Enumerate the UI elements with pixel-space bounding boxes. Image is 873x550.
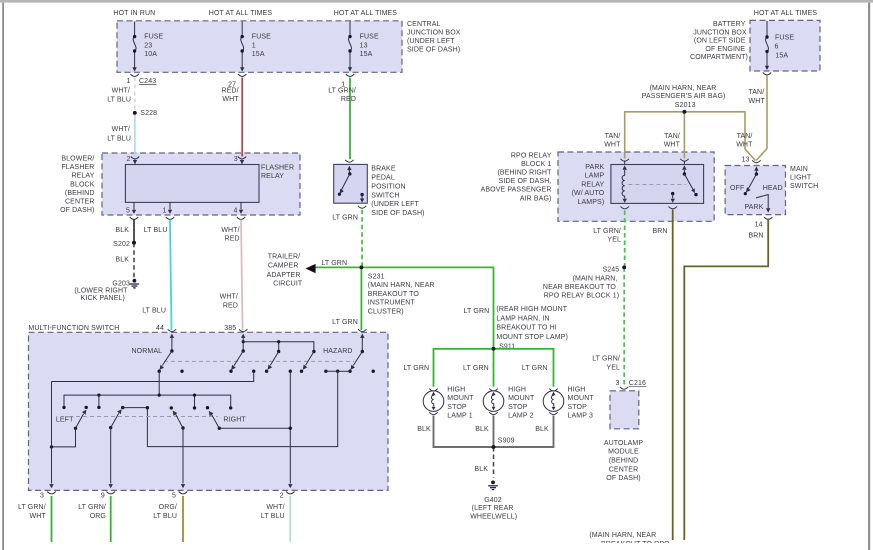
svg-text:3: 3 xyxy=(40,492,44,499)
node LEFT label xyxy=(56,416,74,423)
svg-text:13: 13 xyxy=(360,43,368,50)
svg-text:SIDE OF DASH,: SIDE OF DASH, xyxy=(499,178,552,185)
main light switch xyxy=(725,156,818,228)
svg-text:STOP: STOP xyxy=(447,404,467,411)
svg-text:BLK: BLK xyxy=(115,256,129,263)
svg-text:4: 4 xyxy=(233,208,237,215)
svg-text:(MAIN HARN, NEAR: (MAIN HARN, NEAR xyxy=(589,532,656,539)
svg-text:(W/ AUTO: (W/ AUTO xyxy=(572,190,605,197)
svg-text:MOUNT: MOUNT xyxy=(508,395,535,402)
svg-text:LAMP 1: LAMP 1 xyxy=(447,413,473,420)
svg-text:CENTER: CENTER xyxy=(65,199,95,206)
switch arm 3 xyxy=(265,350,281,373)
svg-text:(UNDER LEFT: (UNDER LEFT xyxy=(371,201,419,208)
brake pedal position switch xyxy=(332,160,424,222)
svg-text:LT GRN/: LT GRN/ xyxy=(328,87,356,94)
svg-text:CENTRAL: CENTRAL xyxy=(407,21,441,28)
svg-text:(LEFT REAR: (LEFT REAR xyxy=(472,505,514,512)
svg-text:FUSE: FUSE xyxy=(144,34,163,41)
svg-text:S2013: S2013 xyxy=(675,102,696,109)
svg-text:FLASHER: FLASHER xyxy=(61,164,94,171)
svg-text:LT GRN/: LT GRN/ xyxy=(592,356,620,363)
svg-text:LAMP 3: LAMP 3 xyxy=(568,413,594,420)
svg-text:G402: G402 xyxy=(484,497,502,504)
svg-text:HIGH: HIGH xyxy=(447,387,465,394)
svg-text:TAN/: TAN/ xyxy=(605,133,621,140)
svg-text:LT BLU: LT BLU xyxy=(153,513,177,520)
splice S231 xyxy=(360,266,435,316)
svg-text:LT GRN/: LT GRN/ xyxy=(18,504,46,511)
wire WHT/LT BLU fuse23 to S228 xyxy=(107,78,135,113)
park lamp relay (w/ auto lamps) xyxy=(572,159,704,209)
svg-text:FUSE: FUSE xyxy=(252,34,271,41)
svg-text:WHT: WHT xyxy=(29,513,46,520)
svg-text:FUSE: FUSE xyxy=(775,35,794,42)
svg-text:BLK: BLK xyxy=(475,426,489,433)
svg-text:OF ENGINE: OF ENGINE xyxy=(705,46,745,53)
svg-text:BLK: BLK xyxy=(474,466,488,473)
svg-text:BLOWER/: BLOWER/ xyxy=(61,156,94,163)
svg-text:BATTERY: BATTERY xyxy=(713,21,746,28)
wire BLK lamp grounds to S909 xyxy=(434,416,554,448)
wire LT GRN/ORG pin9 xyxy=(78,496,111,542)
svg-text:ADAPTER: ADAPTER xyxy=(267,272,301,279)
switch arm left xyxy=(52,410,87,447)
node RIGHT label xyxy=(223,416,246,423)
svg-text:PARK: PARK xyxy=(585,164,604,171)
svg-text:(UNDER LEFT: (UNDER LEFT xyxy=(407,38,455,45)
svg-text:MOUNT: MOUNT xyxy=(568,395,595,402)
svg-text:9: 9 xyxy=(101,492,105,499)
svg-text:COMPARTMENT): COMPARTMENT) xyxy=(690,54,748,61)
wire LT GRN S231 to MFS hazard pin xyxy=(332,267,361,330)
svg-text:WHT/: WHT/ xyxy=(220,294,238,301)
svg-text:LT GRN: LT GRN xyxy=(332,319,358,326)
svg-text:JUNCTION BOX: JUNCTION BOX xyxy=(407,30,461,37)
svg-text:G203: G203 xyxy=(112,280,130,287)
switch linkage dashed (normal/hazard row) xyxy=(164,360,354,362)
svg-text:SIDE OF DASH): SIDE OF DASH) xyxy=(371,210,424,217)
svg-text:1: 1 xyxy=(162,208,166,215)
splice S228 xyxy=(133,110,157,117)
svg-text:1: 1 xyxy=(126,78,130,85)
window left border xyxy=(2,3,4,550)
svg-text:AIR BAG): AIR BAG) xyxy=(520,195,552,202)
splice S2013 and TAN/WHT harness xyxy=(604,85,755,160)
svg-text:15A: 15A xyxy=(775,53,788,60)
svg-text:RED/: RED/ xyxy=(221,87,238,94)
svg-text:FLASHER: FLASHER xyxy=(261,164,294,171)
svg-text:OF DASH): OF DASH) xyxy=(60,207,94,214)
wire BLK flasher pin5 to S202 xyxy=(115,220,134,243)
svg-text:(BEHIND: (BEHIND xyxy=(609,458,639,465)
svg-text:2: 2 xyxy=(280,492,284,499)
svg-text:NEAR BREAKOUT TO: NEAR BREAKOUT TO xyxy=(543,284,617,291)
svg-text:HIGH: HIGH xyxy=(568,387,586,394)
svg-text:2: 2 xyxy=(126,156,130,163)
svg-text:FUSE: FUSE xyxy=(360,34,379,41)
svg-text:CLUSTER): CLUSTER) xyxy=(368,309,404,316)
svg-text:AUTOLAMP: AUTOLAMP xyxy=(604,440,644,447)
svg-text:(MAIN HARN, NEAR: (MAIN HARN, NEAR xyxy=(650,85,717,92)
viewport clip band xyxy=(4,543,868,550)
wire LT GRN S911 bus to lamps xyxy=(403,349,553,387)
svg-text:LAMPS): LAMPS) xyxy=(578,199,605,206)
wire ORG/LT BLU pin5 xyxy=(153,496,183,542)
svg-text:TAN/: TAN/ xyxy=(664,133,680,140)
svg-text:BLK: BLK xyxy=(535,426,549,433)
svg-text:385: 385 xyxy=(224,325,236,332)
svg-text:ORG: ORG xyxy=(90,513,106,520)
wire LT GRN to trailer/camper adapter circuit xyxy=(267,253,362,287)
svg-text:CIRCUIT: CIRCUIT xyxy=(273,281,303,288)
fuse 1 15A xyxy=(228,22,271,89)
svg-text:WHT/: WHT/ xyxy=(266,504,284,511)
svg-text:1: 1 xyxy=(252,43,256,50)
svg-text:S909: S909 xyxy=(498,437,515,444)
svg-text:S202: S202 xyxy=(113,241,130,248)
node HOT AT ALL TIMES (fuse 6) xyxy=(754,10,818,17)
window right border xyxy=(868,3,870,550)
svg-text:(BEHIND: (BEHIND xyxy=(65,190,95,197)
fuse 6 15A xyxy=(763,21,795,75)
high mount stop lamp 3 xyxy=(535,387,594,433)
connector C243 pin 1 xyxy=(126,74,156,85)
svg-text:MOUNT STOP LAMP): MOUNT STOP LAMP) xyxy=(496,334,568,341)
svg-text:BLK: BLK xyxy=(115,227,129,234)
fuse 13 15A xyxy=(341,22,379,89)
wire LT GRN/YEL S245 to C216 autolamp xyxy=(592,267,624,386)
svg-text:LT GRN: LT GRN xyxy=(522,365,548,372)
svg-text:13: 13 xyxy=(741,156,749,163)
svg-text:WHT/: WHT/ xyxy=(221,227,239,234)
ground G203 xyxy=(74,279,139,302)
wire LT GRN S231 to S911 (rear high mount harn) xyxy=(361,267,568,348)
svg-text:(MAIN HARN, NEAR: (MAIN HARN, NEAR xyxy=(368,282,435,289)
svg-text:LT BLU: LT BLU xyxy=(144,227,168,234)
svg-text:HOT AT ALL TIMES: HOT AT ALL TIMES xyxy=(334,10,398,17)
svg-text:LT BLU: LT BLU xyxy=(107,135,131,142)
switch arm right xyxy=(208,410,292,430)
row2 lone contacts xyxy=(85,406,210,410)
contact dots row1 left xyxy=(158,370,184,373)
contact to bus3 riser xyxy=(121,406,149,410)
wire BLK S909 to G402 xyxy=(474,447,493,478)
switch arm 2 (385) xyxy=(229,349,245,373)
svg-text:BRAKE: BRAKE xyxy=(371,166,396,173)
svg-text:BREAKOUT TO: BREAKOUT TO xyxy=(368,291,420,298)
svg-text:44: 44 xyxy=(156,325,164,332)
battery junction box xyxy=(690,20,820,71)
wire WHT/LT BLU S228 to flasher pin 2 xyxy=(107,113,135,157)
wire LT GRN/RED fuse13 to brake switch xyxy=(328,78,356,160)
svg-text:ABOVE PASSENGER: ABOVE PASSENGER xyxy=(481,187,552,194)
MFS pin 9 xyxy=(101,492,115,500)
svg-text:LT BLU: LT BLU xyxy=(142,308,166,315)
wire BRN main light switch pin 14 xyxy=(684,219,768,541)
svg-text:STOP: STOP xyxy=(508,404,528,411)
svg-text:(LOWER RIGHT: (LOWER RIGHT xyxy=(74,287,128,294)
svg-text:10A: 10A xyxy=(144,51,157,58)
svg-text:RPO RELAY: RPO RELAY xyxy=(511,152,552,159)
svg-text:LT GRN: LT GRN xyxy=(332,214,358,221)
MFS pin 3 xyxy=(40,492,56,500)
svg-text:RELAY: RELAY xyxy=(581,181,604,188)
svg-text:3: 3 xyxy=(234,156,238,163)
wire LT BLU flasher pin1 to MFS pin 44 xyxy=(142,220,171,332)
svg-text:RIGHT: RIGHT xyxy=(223,416,246,423)
svg-text:BRN: BRN xyxy=(748,232,763,239)
svg-text:TRAILER/: TRAILER/ xyxy=(268,253,300,260)
svg-text:HOT AT ALL TIMES: HOT AT ALL TIMES xyxy=(754,10,818,17)
svg-text:SWITCH: SWITCH xyxy=(790,183,818,190)
svg-text:WHT/: WHT/ xyxy=(112,87,130,94)
wire RED/WHT fuse1 to flasher pin 3 xyxy=(221,78,242,157)
svg-text:(BEHIND RIGHT: (BEHIND RIGHT xyxy=(497,170,552,177)
splice dots overlay xyxy=(132,110,686,449)
svg-text:MULTI-FUNCTION SWITCH: MULTI-FUNCTION SWITCH xyxy=(28,325,119,332)
svg-text:HOT AT ALL TIMES: HOT AT ALL TIMES xyxy=(209,10,273,17)
MFS pin 44 entry xyxy=(168,329,176,351)
wire WHT/RED flasher pin4 to MFS pin 385 xyxy=(220,220,243,332)
junction dot pin3 riser xyxy=(49,382,53,489)
svg-text:14: 14 xyxy=(755,221,763,228)
high mount stop lamp 1 xyxy=(417,387,474,433)
svg-text:LT GRN/: LT GRN/ xyxy=(593,228,621,235)
wire BLK S202 to G203 xyxy=(115,243,134,278)
svg-text:RELAY: RELAY xyxy=(261,173,284,180)
svg-text:LT BLU: LT BLU xyxy=(107,97,131,104)
svg-text:POSITION: POSITION xyxy=(371,184,405,191)
node HOT IN RUN xyxy=(113,10,155,17)
svg-text:YEL: YEL xyxy=(606,364,620,371)
svg-text:TAN/: TAN/ xyxy=(737,133,753,140)
svg-text:LT GRN: LT GRN xyxy=(403,365,429,372)
svg-text:JUNCTION BOX: JUNCTION BOX xyxy=(693,29,747,36)
svg-text:WHT: WHT xyxy=(222,96,239,103)
svg-text:RELAY: RELAY xyxy=(71,173,94,180)
svg-text:15A: 15A xyxy=(360,51,373,58)
svg-text:MODULE: MODULE xyxy=(608,449,639,456)
node HAZARD label xyxy=(323,348,353,355)
svg-text:HEAD: HEAD xyxy=(763,185,783,192)
switch arm 4 xyxy=(300,350,316,373)
svg-text:CAMPER: CAMPER xyxy=(268,263,299,270)
svg-text:5: 5 xyxy=(126,208,130,215)
switch arm hazard xyxy=(351,350,364,370)
wire contact to bus2 xyxy=(158,371,160,395)
svg-text:INSTRUMENT: INSTRUMENT xyxy=(368,300,416,307)
svg-text:WHT: WHT xyxy=(748,98,765,105)
flasher relay xyxy=(125,156,294,219)
svg-text:WHT: WHT xyxy=(664,142,681,149)
svg-text:LAMP: LAMP xyxy=(585,173,605,180)
svg-text:BRN: BRN xyxy=(652,228,667,235)
wire TAN/WHT fuse6 to main light switch pin 13 xyxy=(748,76,767,161)
svg-text:KICK PANEL): KICK PANEL) xyxy=(81,295,125,302)
switch linkage dashed (left/right row) xyxy=(76,416,218,418)
svg-text:HIGH: HIGH xyxy=(508,387,526,394)
svg-text:LEFT: LEFT xyxy=(56,416,74,423)
contact dot to bus1 elbow xyxy=(52,370,256,382)
svg-text:LT GRN: LT GRN xyxy=(463,365,489,372)
svg-text:(ON LEFT SIDE: (ON LEFT SIDE xyxy=(694,38,746,45)
svg-text:YEL: YEL xyxy=(607,236,621,243)
hazard contacts xyxy=(324,370,375,373)
rpo relay block 1 xyxy=(481,152,715,221)
svg-text:C216: C216 xyxy=(629,380,646,387)
branch 385 to switches 3,4 xyxy=(242,340,314,351)
MFS pin 5 xyxy=(172,492,187,500)
svg-text:BLOCK: BLOCK xyxy=(70,181,95,188)
multi-function switch box xyxy=(28,325,388,491)
wire BRN rpo relay output xyxy=(652,210,672,541)
svg-text:TAN/: TAN/ xyxy=(748,89,764,96)
svg-text:RED: RED xyxy=(341,96,356,103)
splice S911 xyxy=(492,343,516,350)
svg-text:S245: S245 xyxy=(602,266,619,273)
svg-text:ORG/: ORG/ xyxy=(159,504,177,511)
svg-text:OFF: OFF xyxy=(730,185,744,192)
wire WHT/LT BLU pin2 xyxy=(261,496,290,542)
MFS hazard pin entry xyxy=(358,329,366,351)
node HOT AT ALL TIMES (fuse 13) xyxy=(334,10,398,17)
node NORMAL label xyxy=(132,348,163,355)
svg-text:BREAKOUT TO HI: BREAKOUT TO HI xyxy=(496,325,556,332)
note main harn near breakout (bottom) xyxy=(589,532,670,548)
MFS pin 385 entry xyxy=(239,329,247,351)
svg-text:MOUNT: MOUNT xyxy=(447,395,474,402)
svg-text:BLK: BLK xyxy=(417,426,431,433)
fuse 23 10A xyxy=(132,22,163,72)
svg-text:PASSENGER'S AIR BAG): PASSENGER'S AIR BAG) xyxy=(642,93,726,100)
svg-text:SIDE OF DASH): SIDE OF DASH) xyxy=(407,47,460,54)
svg-text:RED: RED xyxy=(225,236,240,243)
blower/flasher relay block xyxy=(60,153,300,215)
svg-text:5: 5 xyxy=(172,492,176,499)
contact dot pin2 vertical xyxy=(288,370,292,489)
svg-text:LT GRN: LT GRN xyxy=(464,308,490,315)
window top border xyxy=(0,0,873,3)
svg-text:3: 3 xyxy=(615,380,619,387)
switch arm pin5 xyxy=(172,410,185,489)
wire LT GRN/YEL rpo relay to S245 xyxy=(593,211,625,267)
svg-text:MAIN: MAIN xyxy=(790,166,808,173)
svg-text:LIGHT: LIGHT xyxy=(790,174,812,181)
svg-text:PEDAL: PEDAL xyxy=(371,175,395,182)
svg-text:CENTER: CENTER xyxy=(609,466,639,473)
svg-text:WHT: WHT xyxy=(604,142,621,149)
svg-text:STOP: STOP xyxy=(568,404,588,411)
svg-text:HAZARD: HAZARD xyxy=(323,348,353,355)
svg-text:S228: S228 xyxy=(140,110,157,117)
wire LT GRN/WHT pin3 xyxy=(18,496,52,542)
svg-text:LT BLU: LT BLU xyxy=(261,513,285,520)
svg-text:23: 23 xyxy=(144,43,152,50)
splice S202 xyxy=(113,241,136,248)
MFS pin 2 xyxy=(280,492,295,500)
svg-text:WHT: WHT xyxy=(736,142,753,149)
svg-text:6: 6 xyxy=(775,44,779,51)
bus2 with stubs xyxy=(62,394,232,410)
svg-text:WHEELWELL): WHEELWELL) xyxy=(470,514,517,521)
svg-text:RED: RED xyxy=(223,302,238,309)
node HOT AT ALL TIMES (fuse 1) xyxy=(209,10,273,17)
wire hazard center contact to bus3 xyxy=(147,371,337,446)
svg-text:(MAIN HARN,: (MAIN HARN, xyxy=(573,275,618,282)
autolamp module xyxy=(604,380,646,482)
svg-text:NORMAL: NORMAL xyxy=(132,348,163,355)
ground G402 xyxy=(470,481,517,521)
svg-text:LAMP 2: LAMP 2 xyxy=(508,413,533,420)
wire LT GRN brake switch to S231 xyxy=(361,210,363,266)
svg-text:WHT/: WHT/ xyxy=(112,126,130,133)
svg-text:RPO RELAY BLOCK 1): RPO RELAY BLOCK 1) xyxy=(544,293,619,300)
splice S245 xyxy=(543,266,626,300)
svg-text:SWITCH: SWITCH xyxy=(371,193,399,200)
svg-text:C243: C243 xyxy=(139,78,156,85)
switch arm normal 1 xyxy=(160,349,174,370)
svg-text:PARK: PARK xyxy=(745,204,764,211)
high mount stop lamp 2 xyxy=(475,387,535,433)
svg-text:LAMP HARN, IN: LAMP HARN, IN xyxy=(496,315,549,322)
svg-text:15A: 15A xyxy=(252,51,265,58)
svg-text:HOT IN RUN: HOT IN RUN xyxy=(113,10,155,17)
svg-text:OF DASH): OF DASH) xyxy=(606,475,640,482)
svg-text:LT GRN: LT GRN xyxy=(321,260,347,267)
central junction box xyxy=(117,21,461,73)
svg-text:LT GRN/: LT GRN/ xyxy=(78,504,106,511)
svg-text:S231: S231 xyxy=(368,273,385,280)
switch arm pin9 xyxy=(109,409,122,488)
svg-text:BLOCK 1: BLOCK 1 xyxy=(521,161,551,168)
splice S909 xyxy=(492,437,515,449)
svg-text:(REAR HIGH MOUNT: (REAR HIGH MOUNT xyxy=(496,306,567,313)
